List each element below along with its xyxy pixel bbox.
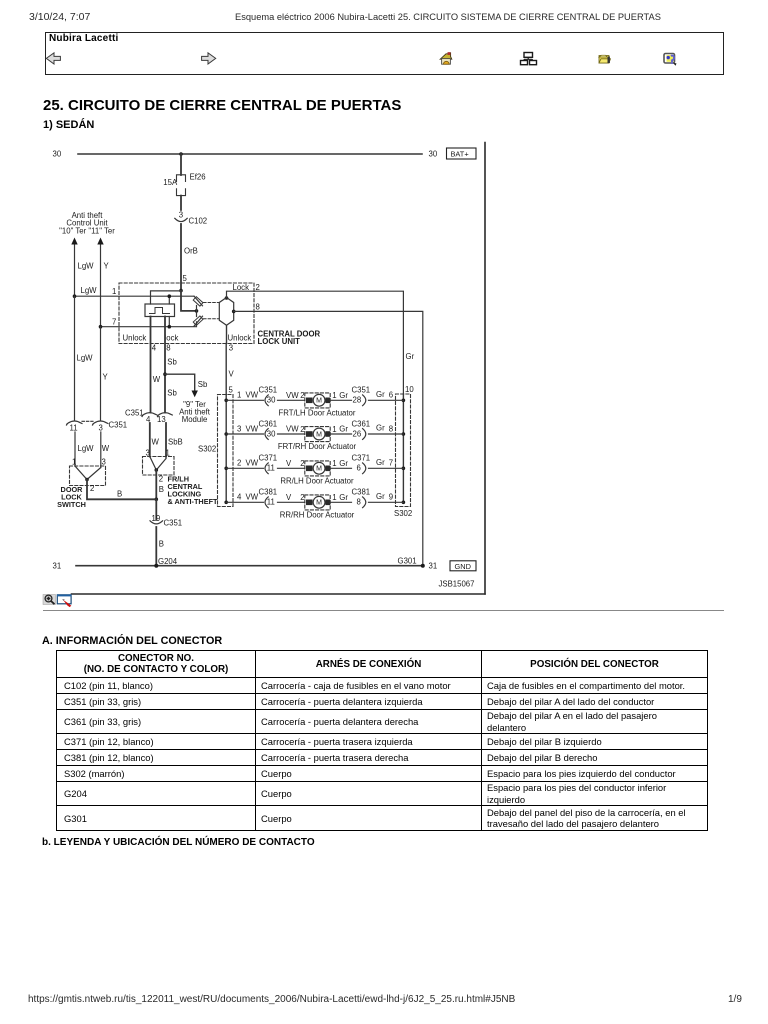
section title	[43, 97, 401, 114]
lock motor cam (hexagon)	[219, 298, 233, 326]
page header date	[29, 11, 90, 23]
wire: B down to connector C351 pin 19	[155, 499, 157, 520]
wire: door lock switch pin 2 B wire to junction	[87, 480, 156, 500]
ground G204	[154, 564, 158, 568]
footer page number	[728, 994, 742, 1005]
section A heading	[42, 635, 222, 647]
wire: right S302 bus vertical	[402, 394, 404, 502]
dashed link lower contact to actuator cam	[204, 318, 219, 320]
wire: connector to right S302	[369, 467, 404, 469]
FR/LH switch name	[168, 475, 219, 507]
wire: SbB to FR/LH switch pin 1	[165, 423, 167, 457]
node: junction on Y line	[99, 325, 103, 329]
wire: FR/LH switch pin 2 down (B)	[155, 470, 157, 499]
sitemap icon	[521, 53, 537, 65]
wire: S302 to connector C361	[226, 433, 263, 435]
back arrow icon	[46, 53, 60, 64]
wire: Y line down to connector C351 pin 3	[100, 327, 102, 421]
FR/LH switch contacts	[150, 457, 166, 471]
door lock switch name	[57, 485, 86, 509]
wire: trunk from bus30 to fuse	[180, 154, 182, 175]
wire: pin 8 to ground line	[234, 311, 423, 565]
wire: connector to motor	[278, 501, 305, 503]
wire: connector to right S302	[369, 399, 404, 401]
door lock switch contacts	[75, 466, 101, 480]
wire: connector to motor	[278, 467, 305, 469]
node: S302 row1	[224, 399, 228, 403]
FR/LH central locking switch dashed box	[143, 457, 175, 476]
toolbar icons svg	[0, 0, 768, 90]
node: bus30/trunk junction	[179, 152, 183, 156]
help icon	[664, 54, 677, 66]
wire: timer top-left pin to trunk	[151, 291, 182, 304]
node: cam right vertex junction	[232, 310, 236, 314]
wire: connector to right S302	[369, 433, 404, 435]
subsection title	[43, 119, 94, 131]
door lock switch dashed box	[70, 466, 106, 486]
door lock actuator motor M	[305, 427, 330, 442]
fuse Ef26 15A	[177, 175, 186, 196]
node: contacts common junction	[195, 309, 199, 313]
wire: fuse to connector C102	[180, 196, 182, 217]
node: junction on LgW line	[73, 294, 77, 298]
folder icon	[599, 55, 611, 63]
page header title	[235, 12, 661, 22]
toolbar tab label	[49, 33, 118, 44]
schematic frame bottom border	[72, 593, 486, 595]
anti theft control unit label	[59, 211, 115, 236]
node: cam top vertex junction	[225, 296, 229, 300]
wire: B to ground G204	[155, 527, 157, 566]
wire: timer pin 8 output Sb	[164, 317, 166, 413]
wire: contacts common vertical	[196, 306, 198, 317]
S302 splice left bus dashed box	[218, 395, 234, 507]
node: S302 row2	[224, 432, 228, 436]
S302 splice right bus dashed box	[396, 394, 411, 507]
dashed link upper contact to actuator cam	[204, 302, 219, 304]
node: right S302 row1	[402, 399, 406, 403]
connector C102 pin 3	[177, 211, 184, 218]
door lock actuator motor M	[305, 461, 330, 476]
wire: motor to connector C381	[330, 501, 351, 503]
node: Sb branch junction	[163, 372, 167, 376]
wire: OrB from C102 to central door lock unit pin 5	[180, 224, 182, 291]
anti theft module label	[179, 400, 211, 424]
wire: S302 to connector C381	[226, 501, 263, 503]
relay contact upper (unlock)	[193, 296, 203, 306]
central door lock unit dashed box	[119, 283, 254, 344]
central door lock unit name	[258, 330, 321, 347]
connector C351 pins 11/3	[67, 421, 83, 425]
wire: motor to connector C361	[330, 433, 351, 435]
wire: motor to connector C351	[330, 399, 351, 401]
wire: Unlock output pin 3 down to left S302 bus	[226, 325, 228, 343]
wire: pin 7 wire from Y line to lock contact	[101, 322, 197, 327]
node: B junction	[155, 498, 159, 502]
connector C351 pins 4/13	[142, 413, 157, 417]
power bus 30	[78, 153, 422, 155]
wire: timer top-right pin to pin1 wire	[168, 296, 170, 304]
wire: left S302 bus vertical	[225, 395, 227, 503]
wire: motor to connector C371	[330, 467, 351, 469]
wire: Sb branch to anti theft module (arrow down)	[165, 374, 195, 390]
GND box	[450, 561, 476, 571]
wire: LgW line down to connector C351 pin 11	[74, 296, 76, 420]
timer (pulse) module U1	[145, 304, 175, 317]
door actuator row: FRT/LH Door Actuator	[226, 386, 403, 418]
wire: S302 to connector C351	[226, 399, 263, 401]
door lock actuator motor M	[305, 393, 330, 408]
door lock actuator motor M	[305, 495, 330, 510]
node: door lock switch common	[85, 478, 89, 482]
edit-window icon below schematic	[57, 595, 71, 607]
node: S302 row4	[224, 501, 228, 505]
ground G301	[421, 564, 425, 568]
home icon	[440, 52, 452, 64]
forward arrow icon	[202, 53, 216, 64]
wire: connector to motor	[278, 399, 305, 401]
wire: trunk down to contacts common	[181, 291, 197, 311]
node: trunk junction above timer	[179, 289, 183, 293]
wire: Y to anti theft control unit "11" Ter (arrow up)	[100, 244, 102, 327]
node: junction pin1 wire / timer	[168, 294, 172, 298]
relay contact lower (lock)	[193, 316, 203, 326]
ground bus 31	[76, 565, 421, 567]
node: FR/LH switch common	[155, 468, 159, 472]
wire: LgW to door lock switch pin 1	[74, 432, 76, 466]
node: S302 row3	[224, 467, 228, 471]
separator rule	[43, 610, 724, 611]
wire: connector to right S302	[369, 501, 404, 503]
node: right S302 row3	[402, 467, 406, 471]
schematic frame right border	[484, 143, 486, 595]
wire: timer bottom-right stub to pin7 wire	[168, 317, 170, 327]
connector table	[56, 650, 708, 831]
node: right S302 row4	[402, 501, 406, 505]
wire: W to FR/LH switch pin 3	[149, 423, 151, 457]
door actuator row: RR/RH Door Actuator	[226, 488, 403, 520]
wire: pin 1 wire LgW from left bus to unlock contact	[75, 295, 195, 297]
wire: S302 to connector C371	[226, 467, 263, 469]
toolbar box	[45, 32, 724, 75]
door actuator row: RR/LH Door Actuator	[226, 454, 403, 486]
door actuator row: FRT/RH Door Actuator	[226, 419, 403, 451]
wire: W to door lock switch pin 3	[100, 432, 102, 466]
wire: Lock output pin 2 to right S302 bus pin 10	[227, 291, 404, 394]
node: junction pin7 wire / timer	[168, 325, 172, 329]
section b heading	[42, 837, 315, 848]
footer url	[28, 994, 515, 1005]
wire: connector to motor	[278, 433, 305, 435]
wire: LgW to anti theft control unit "10" Ter (arrow up)	[74, 244, 76, 296]
BAT+ box	[447, 148, 477, 159]
node: right S302 row2	[402, 432, 406, 436]
wire: timer pin 4 output W	[150, 317, 152, 413]
